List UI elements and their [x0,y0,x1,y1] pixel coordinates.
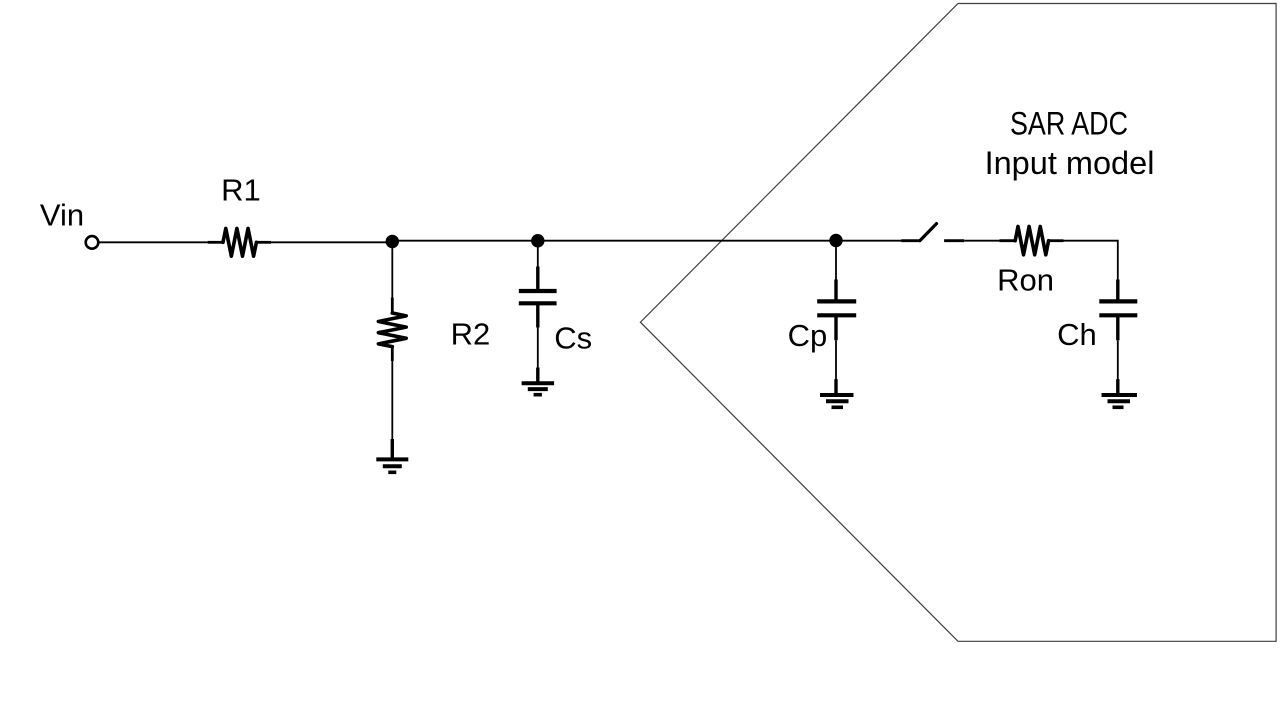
node A junction [386,235,399,248]
label Cs [554,321,592,356]
node C junction [829,234,842,247]
resistor R2 [378,298,406,361]
label Ron [997,262,1054,297]
svg-text:Cp: Cp [788,318,828,353]
capacitor Ch [1099,280,1137,341]
label Vin [40,197,84,232]
capacitor Cp [817,280,856,341]
wire R1 to node A [271,241,392,243]
wire Cp to ground [835,340,837,380]
ground under Ch [1102,379,1138,407]
wire Vin to R1 [99,241,208,243]
ground under Cp [820,379,854,407]
SAR ADC boundary polygon [640,4,1276,642]
switch S1 [901,224,964,241]
label Ch [1057,317,1097,352]
label R1 [221,173,261,208]
wire node B to Cs [537,241,539,267]
label R2 [451,317,491,352]
svg-text:R2: R2 [451,317,491,352]
label Input model [985,145,1155,181]
svg-text:Ron: Ron [997,262,1054,297]
wire Ron to Ch [1064,241,1118,280]
resistor R1 [208,228,271,256]
svg-text:Ch: Ch [1057,317,1097,352]
wire R2 to ground [391,361,393,440]
ground under Cs [522,368,555,395]
ground under R2 [376,439,408,472]
node B junction [531,234,544,247]
svg-text:SAR ADC: SAR ADC [1010,105,1128,141]
svg-text:Vin: Vin [40,197,84,232]
label SAR ADC [1010,105,1128,141]
wire node A to node B [392,240,538,242]
svg-text:Cs: Cs [554,321,592,356]
capacitor Cs [519,267,557,328]
svg-text:Input model: Input model [985,145,1155,181]
wire node C to switch [836,240,902,242]
wire node A to R2 [391,242,393,299]
svg-text:R1: R1 [221,173,261,208]
wire Cs to ground [537,328,539,369]
resistor Ron [1000,227,1064,255]
label Cp [788,318,828,353]
wire switch to Ron [964,240,999,242]
wire node C to Cp [835,241,837,281]
wire node B to node C [538,240,836,242]
node Vin terminal [86,236,99,249]
wire Ch to ground [1117,340,1119,380]
